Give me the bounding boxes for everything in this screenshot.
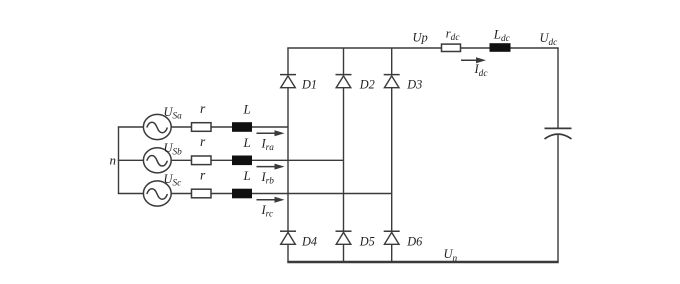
resistor r (phase a) <box>192 123 212 132</box>
current arrow I_ra <box>257 132 277 134</box>
wire leg 2 bottom section <box>343 244 345 262</box>
wire leg 2 middle section <box>343 88 345 232</box>
wire bus to source U_Sb <box>118 159 144 161</box>
wire leg 2 top section <box>343 48 345 75</box>
AC source U_Sa <box>143 114 171 139</box>
wire bus to source U_Sa <box>118 126 144 128</box>
svg-text:r: r <box>200 134 206 149</box>
wire source to resistor (phase a) <box>171 126 191 128</box>
diode D2 <box>336 75 352 88</box>
inductor L (phase a) <box>232 122 252 132</box>
current arrow I_rc <box>257 199 277 201</box>
wire leg 3 middle section <box>391 88 393 232</box>
svg-text:D2: D2 <box>359 77 375 91</box>
wire r_dc to L_dc <box>461 47 490 49</box>
resistor r (phase b) <box>192 156 212 165</box>
wire source to resistor (phase c) <box>171 193 191 195</box>
wire right branch upper <box>557 48 559 128</box>
wire resistor to inductor (phase b) <box>211 159 232 161</box>
wire bus to source U_Sc <box>118 193 144 195</box>
svg-text:L: L <box>243 102 251 117</box>
AC source U_Sb <box>143 148 171 173</box>
current arrow I_rb <box>257 166 277 168</box>
current arrow I_dc <box>461 59 478 61</box>
svg-text:D1: D1 <box>301 77 317 91</box>
svg-text:D4: D4 <box>301 235 317 249</box>
top dc rail wire (bridge to r_dc) <box>287 47 441 49</box>
resistor r_dc <box>442 44 461 51</box>
wire leg 3 top section <box>391 48 393 75</box>
wire inductor to bridge (phase c) <box>252 193 392 195</box>
wire source to resistor (phase b) <box>171 159 191 161</box>
wire right branch lower <box>557 135 559 262</box>
svg-text:n: n <box>110 152 117 167</box>
svg-text:L: L <box>243 168 251 183</box>
svg-text:r: r <box>200 101 206 116</box>
diode D5 <box>336 231 352 244</box>
svg-text:Up: Up <box>413 31 428 45</box>
diode D3 <box>384 75 400 88</box>
diode D6 <box>384 231 400 244</box>
wire resistor to inductor (phase a) <box>211 126 232 128</box>
wire resistor to inductor (phase c) <box>211 193 232 195</box>
wire inductor to bridge (phase a) <box>252 126 288 128</box>
capacitor C <box>545 128 572 139</box>
neutral bus wire <box>118 127 120 194</box>
svg-text:D5: D5 <box>359 235 375 249</box>
wire L_dc to U_dc corner <box>511 47 559 49</box>
wire leg 3 bottom section <box>391 244 393 262</box>
svg-text:D6: D6 <box>406 235 423 249</box>
wire leg 1 bottom section <box>287 244 289 262</box>
resistor r (phase c) <box>192 189 212 198</box>
diode D1 <box>280 75 296 88</box>
inductor L (phase b) <box>232 156 252 166</box>
wire leg 1 middle section <box>287 88 289 232</box>
svg-text:D3: D3 <box>406 77 422 91</box>
diode D4 <box>280 231 296 244</box>
bottom rail wire U_n <box>287 261 558 263</box>
wire leg 1 top section <box>287 48 289 75</box>
svg-text:L: L <box>243 135 251 150</box>
inductor L_dc <box>490 43 511 52</box>
inductor L (phase c) <box>232 189 252 199</box>
wire inductor to bridge (phase b) <box>252 159 344 161</box>
AC source U_Sc <box>143 181 171 206</box>
svg-text:r: r <box>200 167 206 182</box>
